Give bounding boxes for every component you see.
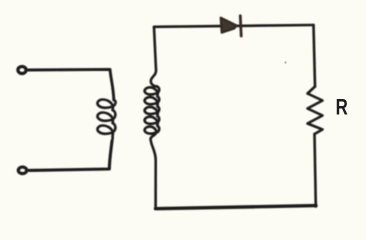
- terminal bottom-left: [18, 167, 26, 174]
- svg-text:R: R: [336, 95, 348, 120]
- wire bottom: [156, 206, 317, 209]
- scan speck: [284, 61, 286, 63]
- wire secondary left bottom: [151, 139, 156, 208]
- resistor R zigzag: [308, 87, 323, 135]
- wire primary top: [28, 69, 114, 100]
- terminal top-left: [18, 67, 26, 74]
- wire secondary left top: [151, 27, 158, 87]
- inductor L1 primary winding: [97, 100, 115, 141]
- inductor L2 secondary winding: [145, 87, 160, 139]
- wire primary bottom: [29, 141, 112, 170]
- wire right top: [314, 25, 316, 87]
- wire right bottom: [315, 134, 316, 207]
- diode D1: [221, 16, 241, 36]
- wire top: [154, 25, 314, 27]
